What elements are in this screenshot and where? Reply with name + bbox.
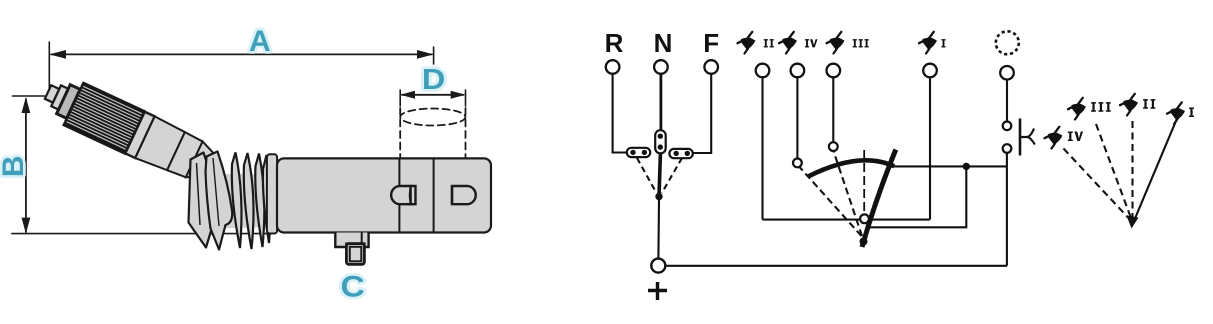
svg-text:B: B	[0, 155, 30, 177]
svg-text:C: C	[340, 269, 364, 303]
svg-text:F: F	[703, 28, 719, 58]
svg-text:A: A	[249, 25, 271, 58]
svg-text:N: N	[654, 28, 673, 58]
svg-text:D: D	[422, 63, 445, 96]
svg-text:R: R	[605, 28, 624, 58]
